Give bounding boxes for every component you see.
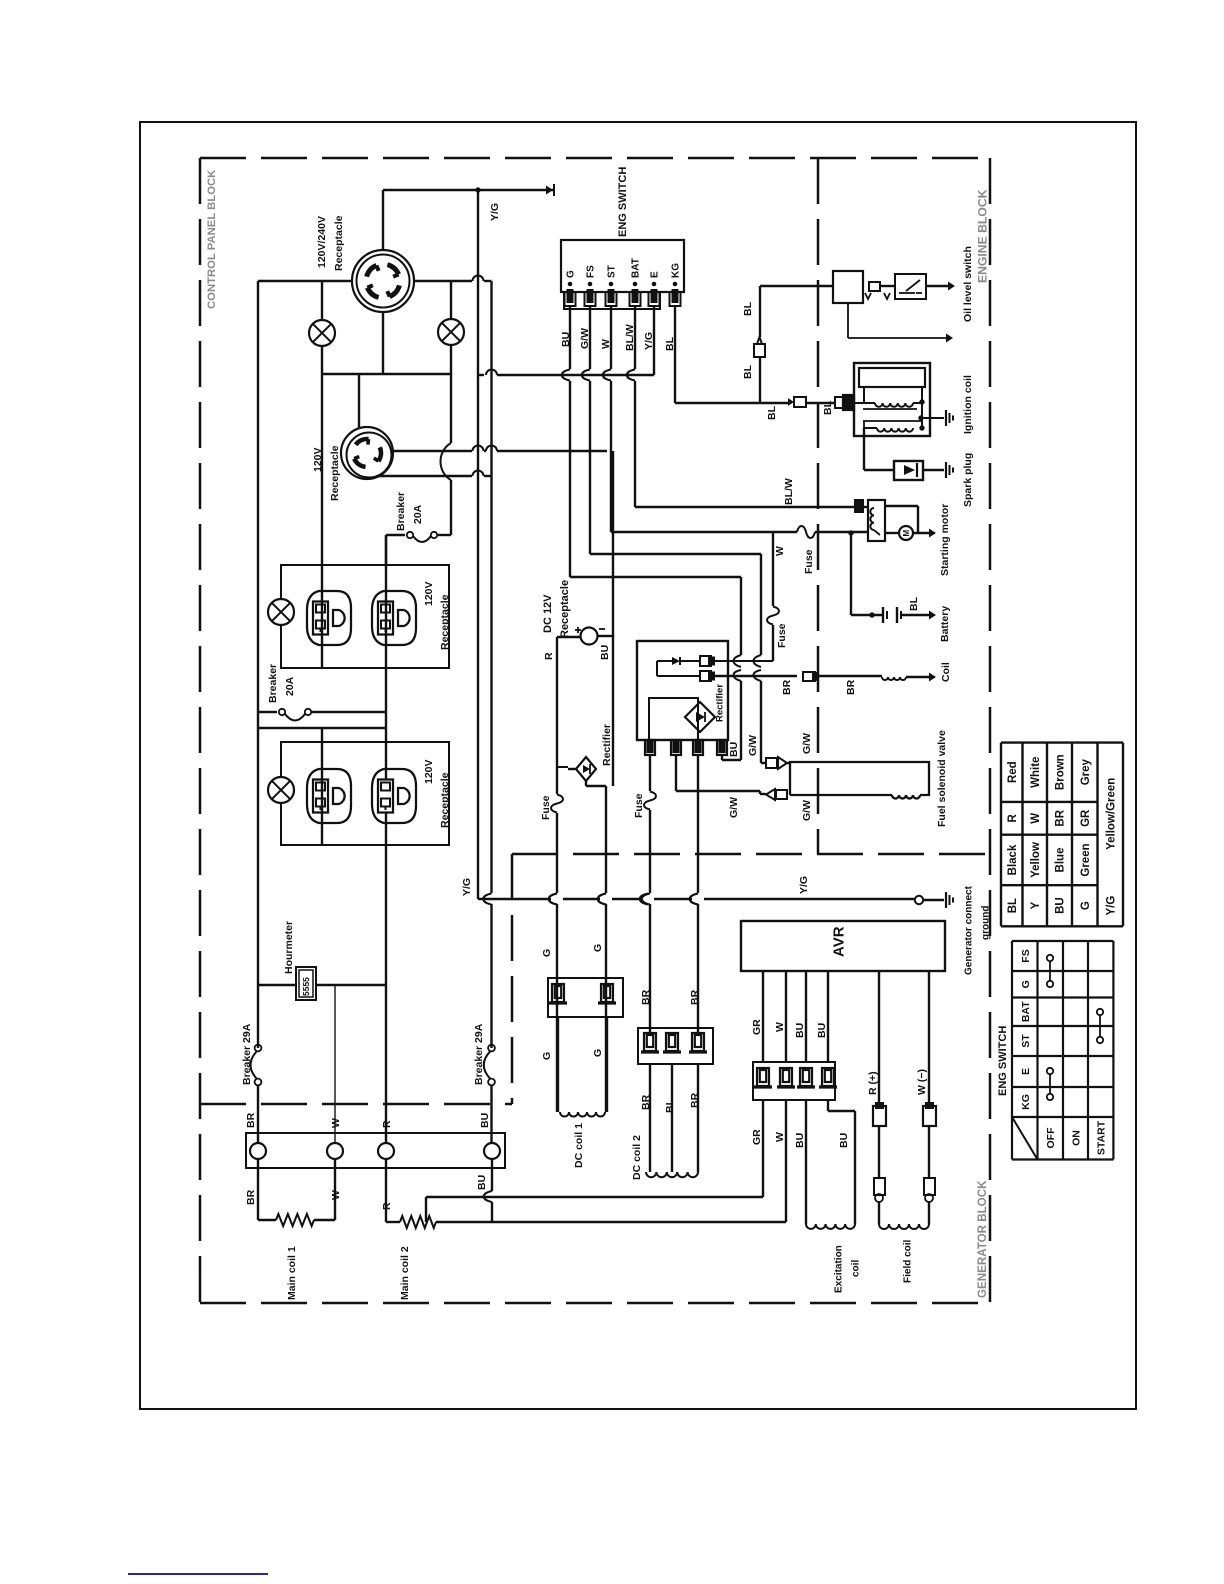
- rectifier pins: [645, 740, 655, 755]
- svg-text:G: G: [1020, 980, 1032, 988]
- svg-text:Receptacle: Receptacle: [559, 580, 571, 638]
- contacts OFF: E-KG: [1047, 1068, 1053, 1074]
- svg-text:Rectifier: Rectifier: [714, 684, 725, 722]
- lamp L1: [321, 281, 323, 320]
- svg-text:120V: 120V: [423, 759, 435, 784]
- svg-text:Fuse: Fuse: [776, 623, 788, 648]
- svg-text:Rectifier: Rectifier: [601, 724, 613, 766]
- svg-text:Generator connect: Generator connect: [964, 885, 975, 975]
- svg-text:BAT: BAT: [1020, 1001, 1032, 1022]
- fuel solenoid valve: [790, 762, 929, 795]
- DC coil1 wires: [557, 1017, 559, 1112]
- bus y281: [258, 280, 352, 282]
- svg-text:DC coil 2: DC coil 2: [631, 1135, 643, 1180]
- Y/G vertical: [477, 190, 479, 899]
- AVR wires: [762, 971, 764, 1062]
- svg-text:Yellow: Yellow: [1030, 842, 1042, 878]
- terminal strip: [246, 1133, 505, 1168]
- R fuse down: [556, 767, 558, 794]
- ENG SWITCH terminal ST: [609, 282, 613, 286]
- wire color table: [1000, 743, 1002, 927]
- bridge diamond: [649, 698, 698, 740]
- Y/G bus to generator ground: [478, 898, 551, 900]
- svg-text:Y/G: Y/G: [461, 878, 473, 896]
- svg-text:Hourmeter: Hourmeter: [283, 921, 295, 974]
- svg-text:FS: FS: [586, 265, 597, 278]
- lamp L4 on box2: [268, 777, 294, 803]
- svg-text:W: W: [774, 1132, 786, 1142]
- ENG SWITCH box: [561, 240, 684, 292]
- svg-text:Receptacle: Receptacle: [333, 215, 345, 271]
- ENG SWITCH terminal G: [568, 282, 572, 286]
- bus y374: [322, 373, 451, 375]
- svg-text:KG: KG: [1020, 1094, 1032, 1110]
- ENG SWITCH connector shell: [564, 292, 660, 309]
- svg-text:20A: 20A: [284, 676, 296, 696]
- DC coil2 wires: [649, 1064, 651, 1172]
- svg-text:E: E: [1020, 1068, 1032, 1075]
- svg-text:BR: BR: [689, 989, 701, 1005]
- svg-text:Fuse: Fuse: [540, 795, 552, 820]
- DC 12V receptacle: [581, 628, 598, 645]
- field coil: [879, 1224, 929, 1229]
- svg-text:Receptacle: Receptacle: [329, 445, 341, 501]
- svg-text:ENGINE BLOCK: ENGINE BLOCK: [975, 189, 989, 283]
- svg-text:BAT: BAT: [631, 258, 642, 278]
- G/W valve connector top: [766, 758, 777, 768]
- svg-text:Coil: Coil: [940, 662, 952, 682]
- R bus to terminal: [385, 985, 387, 1144]
- AVR connector: [753, 1062, 835, 1100]
- outlet 1a: [307, 591, 351, 645]
- svg-text:ST: ST: [607, 265, 618, 278]
- svg-text:Grey: Grey: [1080, 758, 1092, 785]
- wire Y/G top: [383, 189, 553, 191]
- receptacle 120V/240V: [352, 250, 414, 312]
- svg-text:G/W: G/W: [801, 733, 813, 754]
- wire from receptacle top: [382, 190, 384, 250]
- BL connector 2: [794, 397, 806, 407]
- AVR box: [741, 921, 945, 971]
- svg-text:5555: 5555: [301, 977, 311, 996]
- svg-text:BL: BL: [1007, 898, 1019, 913]
- field coil connectors: [874, 1178, 885, 1195]
- svg-text:GENERATOR BLOCK: GENERATOR BLOCK: [976, 1180, 989, 1298]
- svg-text:20A: 20A: [412, 504, 424, 524]
- svg-text:R: R: [381, 1120, 393, 1128]
- outlet 2b: [372, 769, 416, 823]
- W line to starting motor: [611, 531, 613, 533]
- wire to 120V receptacle: [358, 374, 360, 427]
- svg-text:Main coil 1: Main coil 1: [286, 1246, 298, 1300]
- svg-text:BU: BU: [838, 1133, 850, 1148]
- svg-text:Breaker 29A: Breaker 29A: [241, 1023, 253, 1085]
- svg-text:120V: 120V: [423, 581, 435, 606]
- svg-text:GR: GR: [751, 1019, 763, 1035]
- svg-text:Battery: Battery: [939, 606, 951, 642]
- svg-text:G: G: [566, 270, 577, 278]
- rectifier block: [637, 641, 728, 740]
- svg-text:W: W: [1030, 813, 1042, 824]
- svg-text:Breaker 29A: Breaker 29A: [473, 1023, 485, 1085]
- svg-text:GR: GR: [751, 1129, 763, 1145]
- svg-text:ON: ON: [1070, 1130, 1082, 1146]
- svg-text:CONTROL PANEL BLOCK: CONTROL PANEL BLOCK: [206, 169, 218, 309]
- svg-text:G/W: G/W: [801, 800, 813, 821]
- svg-text:Oil level switch: Oil level switch: [962, 246, 974, 322]
- ENG SWITCH truth table: [1011, 941, 1013, 1160]
- svg-text:R: R: [543, 652, 555, 660]
- svg-text:KG: KG: [671, 263, 682, 278]
- svg-text:Receptacle: Receptacle: [439, 594, 451, 650]
- svg-text:Blue: Blue: [1055, 848, 1067, 873]
- svg-text:120V/240V: 120V/240V: [316, 216, 328, 268]
- BL wire: [675, 402, 790, 404]
- ENG SWITCH terminal E: [652, 282, 656, 286]
- svg-text:FS: FS: [1020, 949, 1032, 962]
- oil switch contact box: [895, 274, 926, 299]
- svg-text:Fuel solenoid valve: Fuel solenoid valve: [936, 730, 948, 827]
- generator ground symbol: [945, 892, 947, 908]
- starting motor relay: [855, 500, 863, 512]
- breaker 20A #1: [386, 534, 405, 536]
- duplex receptacle box 2: [281, 742, 449, 845]
- excitation coil: [806, 1224, 855, 1229]
- wires box2: [321, 728, 323, 780]
- motor: [885, 532, 899, 534]
- svg-text:G: G: [1080, 901, 1092, 910]
- R bus down: [385, 845, 387, 985]
- wire y476: [379, 475, 472, 477]
- svg-text:G: G: [541, 949, 553, 957]
- oil switch lower wire: [847, 303, 849, 338]
- diode branch: [656, 661, 658, 676]
- lamp L2: [450, 281, 452, 319]
- breaker 20A #2 lines: [258, 711, 277, 713]
- svg-text:BU: BU: [794, 1023, 806, 1038]
- svg-text:Receptacle: Receptacle: [439, 772, 451, 828]
- R(+) W(-) wires: [878, 971, 880, 1106]
- fuse branch to rectifier: [772, 532, 774, 606]
- svg-text:R (+): R (+): [867, 1071, 879, 1095]
- battery: [850, 533, 852, 615]
- svg-text:G/W: G/W: [747, 735, 759, 756]
- wire BU right bus: [490, 281, 492, 893]
- svg-text:BR: BR: [245, 1112, 257, 1128]
- svg-text:Black: Black: [1007, 844, 1019, 875]
- wire receptacle bottom: [382, 312, 384, 374]
- BU pin4: [721, 754, 723, 760]
- svg-text:W: W: [774, 546, 786, 556]
- svg-text:E: E: [650, 271, 661, 278]
- svg-text:Breaker: Breaker: [395, 492, 407, 531]
- lamp L3 on box1: [268, 599, 294, 625]
- valve connector bottom: [766, 789, 775, 800]
- BU wire down through diamond: [612, 636, 614, 786]
- ENG SWITCH terminal FS: [588, 282, 592, 286]
- ENG SWITCH terminal KG: [673, 282, 677, 286]
- risers to AVR connector: [762, 1100, 764, 1197]
- wires box1: [321, 374, 323, 602]
- svg-text:ENG SWITCH: ENG SWITCH: [997, 1026, 1009, 1096]
- svg-text:GR: GR: [1080, 809, 1092, 827]
- spark plug: [894, 461, 923, 480]
- svg-text:OFF: OFF: [1045, 1127, 1057, 1149]
- svg-text:Y/G: Y/G: [798, 876, 810, 894]
- wires below terminals: [257, 1159, 259, 1220]
- DC coil2 connector: [638, 1028, 713, 1064]
- svg-text:BU: BU: [816, 1023, 828, 1038]
- pin wires: [649, 754, 651, 791]
- svg-text:W (−): W (−): [916, 1069, 928, 1095]
- ignition coil: [854, 363, 930, 436]
- svg-text:Fuse: Fuse: [633, 793, 645, 818]
- svg-text:Y/G: Y/G: [1105, 896, 1117, 916]
- BR connector: [803, 672, 815, 681]
- svg-text:BL: BL: [766, 405, 778, 420]
- svg-text:BU: BU: [794, 1133, 806, 1148]
- svg-text:R: R: [1007, 813, 1019, 822]
- receptacle 120V: [341, 427, 393, 479]
- svg-text:ST: ST: [1020, 1034, 1032, 1048]
- svg-text:Y/G: Y/G: [489, 203, 501, 221]
- outlet 2a: [307, 769, 351, 823]
- CONTROL PANEL BLOCK dashed border: [200, 157, 990, 160]
- main coil 1: [258, 1219, 276, 1221]
- breaker 29A #2: [488, 1045, 495, 1052]
- svg-text:BL: BL: [908, 596, 920, 611]
- svg-text:AVR: AVR: [830, 926, 847, 957]
- svg-text:DC coil 1: DC coil 1: [573, 1123, 585, 1168]
- svg-text:BR: BR: [245, 1189, 257, 1205]
- svg-text:BU: BU: [1055, 897, 1067, 914]
- svg-text:BR: BR: [640, 989, 652, 1005]
- outlet 1b: [372, 591, 416, 645]
- hourmeter: [258, 984, 296, 986]
- oil switch plug: [869, 282, 880, 291]
- spark plug wire: [863, 428, 865, 470]
- svg-text:BR: BR: [1055, 809, 1067, 826]
- svg-text:Breaker: Breaker: [267, 664, 279, 703]
- svg-text:BR: BR: [781, 679, 793, 695]
- ENG SWITCH terminal BAT: [633, 282, 637, 286]
- DC coil1 connector: [548, 978, 623, 1017]
- svg-text:BL: BL: [742, 301, 754, 316]
- svg-text:BU: BU: [479, 1113, 491, 1128]
- svg-text:BR: BR: [845, 679, 857, 695]
- svg-text:BL: BL: [664, 1098, 676, 1113]
- breaker 29A #1: [255, 1045, 262, 1052]
- svg-text:Brown: Brown: [1055, 754, 1067, 790]
- svg-text:Main coil 2: Main coil 2: [399, 1246, 411, 1300]
- svg-text:BL/W: BL/W: [783, 478, 795, 505]
- svg-text:Red: Red: [1007, 761, 1019, 783]
- svg-text:BU: BU: [728, 742, 740, 757]
- svg-text:Yellow/Green: Yellow/Green: [1105, 778, 1117, 850]
- svg-text:M: M: [902, 530, 911, 537]
- svg-text:G: G: [592, 944, 604, 952]
- svg-text:ENG SWITCH: ENG SWITCH: [617, 167, 629, 237]
- left bus BR: [257, 281, 259, 1048]
- contacts OFF: FS-G: [1047, 955, 1053, 961]
- small rectifier diamond: [576, 757, 596, 781]
- svg-text:ground: ground: [981, 906, 992, 940]
- oil level switch unit: [833, 271, 863, 303]
- svg-text:White: White: [1030, 757, 1042, 788]
- svg-text:Starting motor: Starting motor: [939, 504, 951, 576]
- svg-text:W: W: [774, 1022, 786, 1032]
- main coil 2: [386, 1221, 400, 1223]
- G/W line to fuel valve: [698, 790, 760, 792]
- coil2 output lines: [425, 1197, 427, 1222]
- svg-text:Y: Y: [1030, 901, 1042, 909]
- svg-text:G: G: [541, 1052, 553, 1060]
- svg-text:DC 12V: DC 12V: [542, 594, 554, 633]
- W wire: [334, 985, 336, 1144]
- svg-text:coil: coil: [851, 1260, 862, 1277]
- coil connector plug: [835, 397, 845, 408]
- svg-text:Spark plug: Spark plug: [962, 453, 974, 507]
- BL/W line: [635, 506, 855, 508]
- wire y451: [393, 450, 472, 452]
- svg-text:G: G: [592, 1049, 604, 1057]
- contacts START: BAT-ST: [1097, 1009, 1103, 1015]
- duplex receptacle box 1: [281, 565, 449, 668]
- svg-text:Ignition coil: Ignition coil: [962, 375, 974, 434]
- svg-text:W: W: [330, 1118, 342, 1128]
- svg-text:BU: BU: [599, 645, 611, 660]
- svg-text:Excitation: Excitation: [834, 1245, 845, 1293]
- svg-text:G/W: G/W: [728, 797, 740, 818]
- charge coil line BR: [711, 675, 797, 677]
- svg-text:BU: BU: [476, 1175, 488, 1190]
- svg-text:START: START: [1095, 1120, 1107, 1155]
- svg-text:Green: Green: [1080, 843, 1092, 876]
- svg-text:BL: BL: [742, 364, 754, 379]
- svg-text:Fuse: Fuse: [803, 549, 815, 574]
- vertical x451 with hop: [450, 374, 452, 443]
- R wire down: [556, 637, 558, 767]
- svg-text:Field coil: Field coil: [903, 1239, 914, 1283]
- footer link line: [128, 1573, 268, 1575]
- BL connector: [754, 344, 765, 357]
